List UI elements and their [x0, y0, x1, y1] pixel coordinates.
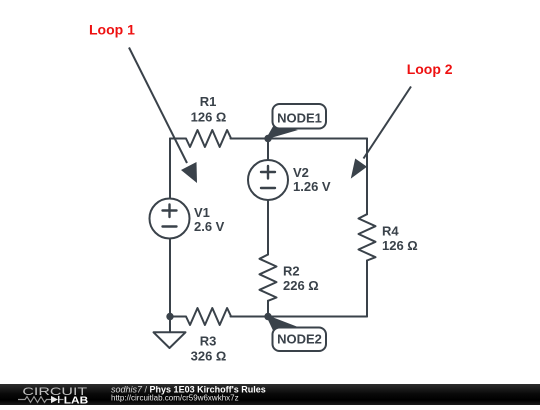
voltage source V1: [150, 199, 190, 239]
Loop 1 arrow: [129, 48, 197, 184]
svg-text:R2: R2: [283, 264, 300, 279]
node NODE1 junction dot: [264, 135, 271, 142]
wire right upper (corner to R4): [366, 139, 368, 215]
svg-text:326 Ω: 326 Ω: [191, 349, 227, 364]
wire R1 to top-right corner: [231, 138, 368, 140]
wire R2 to NODE2: [267, 301, 269, 317]
wire ground junction to R3: [170, 316, 186, 318]
resistor R1: [186, 130, 231, 147]
wire R4 to bottom-right corner: [366, 261, 368, 317]
wire V1 to bottom-left junction: [169, 239, 171, 317]
NODE1 label box: [273, 104, 327, 129]
ground junction dot: [166, 313, 173, 320]
svg-text:2.6 V: 2.6 V: [194, 219, 225, 234]
R2 value label: [283, 264, 319, 294]
svg-text:V1: V1: [194, 205, 210, 220]
footer bar: [0, 384, 540, 405]
R4 value label: [382, 224, 418, 254]
annotation Loop 2: [407, 61, 453, 77]
wire NODE1 to V2: [267, 139, 269, 161]
svg-text:R4: R4: [382, 224, 399, 239]
voltage source V2: [248, 160, 288, 200]
wire V2 to R2: [267, 200, 269, 255]
svg-text:1.26 V: 1.26 V: [293, 179, 331, 194]
svg-text:R3: R3: [200, 334, 217, 349]
Loop 2 arrow: [351, 87, 411, 179]
NODE2 flag pointer: [266, 315, 299, 332]
node NODE2 junction dot: [264, 313, 271, 320]
R1 value label: [191, 94, 227, 125]
CircuitLab logo: [18, 386, 89, 407]
svg-text:NODE2: NODE2: [277, 332, 322, 347]
svg-text:R1: R1: [200, 94, 217, 109]
resistor R3: [186, 308, 231, 325]
ground: [154, 317, 186, 349]
resistor R4: [359, 214, 376, 260]
wire R3 to bottom-right corner: [231, 316, 368, 318]
svg-text:Loop 1: Loop 1: [89, 22, 135, 38]
V1 value label: [194, 205, 225, 234]
svg-text:LAB: LAB: [64, 395, 89, 406]
annotation Loop 1: [89, 22, 135, 38]
R3 value label: [191, 334, 227, 364]
NODE1 flag pointer: [266, 126, 299, 140]
NODE2 label box: [273, 328, 327, 352]
svg-text:126 Ω: 126 Ω: [191, 110, 227, 125]
svg-text:Loop 2: Loop 2: [407, 61, 453, 77]
svg-text:http://circuitlab.com/cr59w6xw: http://circuitlab.com/cr59w6xwkhx7z: [111, 394, 239, 403]
wire top-left corner to R1: [170, 138, 186, 140]
V2 value label: [293, 165, 331, 194]
resistor R2: [260, 255, 277, 301]
svg-text:226 Ω: 226 Ω: [283, 278, 319, 293]
wire left upper (corner to V1): [169, 139, 171, 199]
svg-text:126 Ω: 126 Ω: [382, 238, 418, 253]
svg-text:V2: V2: [293, 165, 309, 180]
svg-text:NODE1: NODE1: [277, 111, 322, 126]
footer credits: [111, 385, 266, 403]
